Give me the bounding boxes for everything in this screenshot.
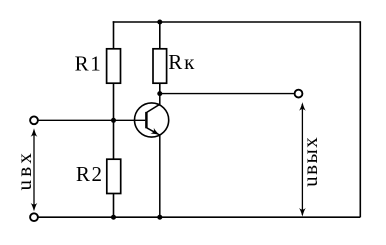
wire: top rail corner down to R1 xyxy=(113,21,115,49)
junction node: top rail / Rk xyxy=(157,20,162,25)
uvyx arrowhead top xyxy=(299,102,306,111)
transistor base bar xyxy=(145,112,148,128)
svg-text:R1: R1 xyxy=(75,51,103,75)
svg-text:uвх: uвх xyxy=(12,150,36,191)
svg-text:uвых: uвых xyxy=(298,136,322,187)
wire: Rk bottom to collector node xyxy=(159,83,161,93)
junction node: base / divider xyxy=(111,118,116,123)
emitter arrowhead xyxy=(150,128,161,138)
output terminal xyxy=(295,90,303,98)
wire: collector node to output terminal xyxy=(160,93,294,95)
uvyx arrowhead bottom xyxy=(299,208,306,217)
wire: base wire from input terminal to transistor base xyxy=(36,119,145,121)
wire: top supply rail xyxy=(113,21,361,23)
resistor R1 xyxy=(107,49,121,83)
junction node: collector / output xyxy=(157,91,162,96)
wire: emitter down to ground rail xyxy=(159,135,161,217)
transistor emitter lead xyxy=(147,128,160,135)
wire: R1 bottom to base node xyxy=(113,83,115,159)
input terminal bottom xyxy=(30,213,38,221)
wire: R2 bottom to ground rail xyxy=(113,194,115,218)
uvyx measuring arrow stem xyxy=(301,104,303,215)
uvx arrowhead top xyxy=(31,128,38,137)
transistor VT1 body circle xyxy=(135,103,169,137)
resistor R2 xyxy=(107,159,121,193)
junction node: R2 / ground rail xyxy=(111,215,116,220)
svg-text:R2: R2 xyxy=(76,162,104,186)
transistor collector lead xyxy=(147,94,160,113)
uvx measuring arrow stem xyxy=(33,131,35,210)
uvx arrowhead bottom xyxy=(31,203,38,212)
input terminal top xyxy=(30,116,38,124)
resistor Rk xyxy=(153,49,167,83)
wire: top rail to Rk xyxy=(159,22,161,49)
junction node: emitter / ground rail xyxy=(157,215,162,220)
svg-text:Rк: Rк xyxy=(168,50,196,74)
wire: right edge vertical xyxy=(359,21,361,217)
wire: bottom ground rail xyxy=(34,216,360,218)
